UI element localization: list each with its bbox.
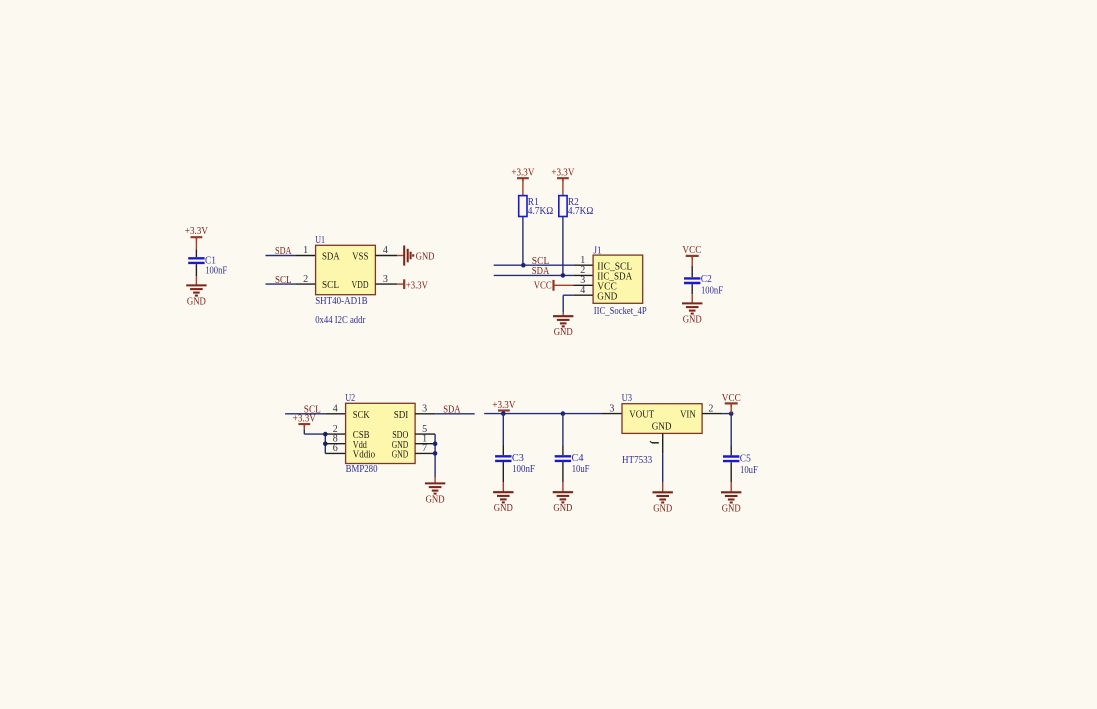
svg-text:3: 3: [383, 274, 388, 285]
wire U2 pin3 SDA: [435, 413, 475, 415]
svg-text:VIN: VIN: [680, 409, 696, 421]
wire C5 bottom lead: [730, 462, 732, 492]
svg-text:VDD: VDD: [352, 279, 369, 291]
svg-text:3: 3: [609, 403, 614, 414]
ground (J1): [553, 316, 573, 326]
pin 2 of U3: [702, 413, 722, 415]
svg-text:GND: GND: [416, 250, 435, 262]
svg-text:100nF: 100nF: [701, 284, 723, 296]
svg-text:GND: GND: [653, 502, 672, 514]
capacitor C3 100nF: [495, 456, 511, 461]
svg-text:SDI: SDI: [394, 409, 409, 421]
svg-text:HT7533: HT7533: [622, 454, 653, 466]
wire R2 bottom to SDA: [562, 217, 564, 276]
svg-text:10uF: 10uF: [740, 464, 758, 476]
svg-text:GND: GND: [554, 326, 573, 338]
pin 8 of U2: [325, 443, 345, 445]
svg-text:100nF: 100nF: [512, 463, 535, 475]
svg-text:7: 7: [422, 443, 427, 454]
wire 3.3V rail to U3: [484, 413, 602, 415]
svg-text:2: 2: [303, 274, 308, 285]
svg-text:C2: C2: [701, 273, 712, 285]
svg-text:+3.3V: +3.3V: [293, 413, 316, 425]
wire U2 right rail to ground: [434, 434, 436, 483]
wire VCC to J1 pin 3: [554, 284, 574, 286]
svg-text:4.7KΩ: 4.7KΩ: [528, 205, 553, 217]
svg-text:GND: GND: [392, 449, 409, 461]
junction U2 pin 8: [323, 441, 328, 446]
IC U2 BMP280 body: [346, 403, 416, 463]
svg-text:BMP280: BMP280: [346, 463, 378, 475]
ground (U2): [425, 483, 445, 493]
connector J1 body: [593, 255, 643, 303]
junction rail/C3: [501, 411, 506, 416]
svg-text:4: 4: [333, 404, 338, 415]
junction U2 pin 1: [433, 441, 438, 446]
junction U2 pin 2: [323, 432, 328, 437]
power bar VCC: [725, 403, 738, 406]
svg-text:GND: GND: [652, 420, 672, 432]
wire SCL to U2 pin 4: [285, 413, 325, 415]
svg-text:+3.3V: +3.3V: [551, 166, 574, 178]
svg-text:SDA: SDA: [322, 250, 340, 262]
capacitor C4 10uF: [555, 456, 571, 461]
power bar VCC: [686, 256, 699, 259]
power bar VCC (J1 pin 3): [552, 280, 554, 291]
power +3.3V (U2): [298, 424, 310, 427]
svg-text:IIC_Socket_4P: IIC_Socket_4P: [594, 305, 647, 317]
pin 3 of U1: [375, 283, 397, 285]
svg-text:VCC: VCC: [682, 244, 701, 256]
svg-text:VCC: VCC: [534, 280, 552, 292]
wire C3 top lead: [502, 414, 504, 456]
svg-text:SDA: SDA: [532, 265, 550, 277]
pin 2 of U2: [325, 433, 345, 435]
pin 1 of U2: [415, 443, 435, 445]
svg-text:VSS: VSS: [352, 250, 368, 262]
power +3.3V (R1): [517, 178, 529, 181]
wire C5 top lead: [730, 414, 732, 456]
svg-text:GND: GND: [722, 502, 741, 514]
svg-text:+3.3V: +3.3V: [511, 166, 534, 178]
wire C1 top lead: [195, 237, 197, 257]
power +3.3V sideways (U1 pin 3): [403, 279, 405, 289]
svg-text:Vddio: Vddio: [353, 449, 376, 461]
resistor R2 4.7K body: [559, 196, 567, 217]
ground (C1): [186, 285, 206, 295]
pin 6 of U2: [325, 452, 345, 454]
wire C3 bottom lead: [502, 462, 504, 492]
pin 3 of U3: [602, 413, 622, 415]
ground (U3): [653, 492, 673, 502]
svg-text:GND: GND: [597, 290, 617, 302]
svg-text:U2: U2: [345, 392, 355, 404]
wire VCC lead: [730, 403, 732, 413]
wire U1 pin3 to +3.3V: [397, 283, 404, 285]
wire R2 top lead: [562, 178, 564, 195]
wire C4 bottom lead: [562, 462, 564, 492]
junction SCL/R1: [521, 263, 526, 268]
wire U2 left rail: [324, 434, 326, 453]
junction rail/C4: [561, 411, 566, 416]
svg-text:GND: GND: [426, 493, 445, 505]
svg-text:10uF: 10uF: [572, 463, 590, 475]
junction VCC/C5: [729, 411, 734, 416]
pin 2 of U1: [296, 283, 316, 285]
svg-text:GND: GND: [187, 295, 206, 307]
ground (C2): [682, 303, 702, 313]
wire +3.3V to U2 left rail: [304, 424, 325, 434]
pin 1 of U1: [296, 255, 316, 257]
svg-text:2: 2: [708, 403, 713, 414]
junction U2 pin 7: [433, 451, 438, 456]
wire C1 bottom lead: [195, 264, 197, 285]
wire C2 bottom lead: [691, 284, 693, 303]
capacitor C5 10uF: [723, 457, 739, 462]
pin 3 of U2: [415, 413, 435, 415]
pin 3 of J1: [573, 284, 593, 286]
pin 1 of U3 (GND): [662, 433, 664, 453]
wire R1 bottom to SCL: [522, 217, 524, 266]
ground sideways (U1 pin 4): [404, 246, 413, 266]
svg-text:SHT40-AD1B: SHT40-AD1B: [315, 295, 367, 307]
svg-text:4.7KΩ: 4.7KΩ: [568, 205, 593, 217]
svg-text:4: 4: [580, 285, 585, 296]
svg-text:+3.3V: +3.3V: [406, 279, 428, 291]
svg-text:C5: C5: [740, 452, 751, 464]
wire SCL to U1 pin 2: [266, 283, 296, 285]
svg-text:6: 6: [333, 443, 338, 454]
svg-text:4: 4: [383, 245, 388, 256]
pin 4 of U2: [325, 413, 345, 415]
wire C4 top lead: [562, 414, 564, 456]
svg-text:U3: U3: [622, 392, 633, 404]
wire +3.3V stub: [502, 411, 504, 414]
svg-text:+3.3V: +3.3V: [492, 399, 515, 411]
wire U1 pin4 to GND: [397, 255, 404, 257]
svg-text:VOUT: VOUT: [629, 409, 654, 421]
power +3.3V (R2): [557, 178, 569, 181]
svg-text:GND: GND: [494, 502, 513, 514]
power +3.3V (C1): [191, 237, 203, 240]
svg-text:+3.3V: +3.3V: [185, 225, 208, 237]
pin 4 of J1: [573, 294, 593, 296]
ground (C3): [493, 492, 513, 502]
power +3.3V (rail): [498, 411, 510, 414]
svg-text:1: 1: [303, 245, 308, 256]
resistor R1 4.7K body: [519, 196, 527, 217]
svg-text:SDA: SDA: [275, 245, 292, 257]
svg-text:VCC: VCC: [722, 392, 741, 404]
svg-text:100nF: 100nF: [205, 264, 227, 276]
svg-text:J1: J1: [594, 245, 602, 257]
ground (C5): [721, 492, 741, 502]
wire J1 pin4 to ground: [563, 295, 573, 316]
svg-text:SCL: SCL: [322, 279, 339, 291]
IC U1 SHT40-AD1B body: [316, 245, 376, 294]
pin 5 of U2: [415, 433, 435, 435]
svg-text:0x44 I2C addr: 0x44 I2C addr: [315, 314, 365, 326]
junction SDA/R2: [561, 273, 566, 278]
wire SDA to U1 pin 1: [266, 255, 296, 257]
pin 4 of U1: [375, 255, 397, 257]
wire U3 pin2 to VCC: [722, 413, 731, 415]
wire U3 gnd: [662, 453, 664, 492]
capacitor C1 100nF: [188, 258, 204, 263]
ground (C4): [553, 492, 573, 502]
wire SDA bus: [494, 274, 574, 276]
pin number 1 rotated: [650, 441, 659, 443]
svg-text:SCL: SCL: [275, 274, 292, 286]
svg-text:3: 3: [422, 404, 427, 415]
wire SCL bus: [494, 264, 574, 266]
svg-text:GND: GND: [683, 313, 702, 325]
svg-text:SDA: SDA: [443, 403, 460, 415]
capacitor C2 100nF: [684, 278, 700, 283]
pin 1 of J1: [573, 264, 593, 266]
regulator U3 HT7533 body: [622, 404, 702, 434]
wire C2 top lead: [691, 256, 693, 277]
svg-text:GND: GND: [553, 502, 572, 514]
pin 2 of J1: [573, 274, 593, 276]
svg-text:U1: U1: [315, 234, 325, 246]
svg-text:SCK: SCK: [353, 409, 370, 421]
wire R1 top lead: [522, 178, 524, 195]
pin 7 of U2: [415, 452, 435, 454]
